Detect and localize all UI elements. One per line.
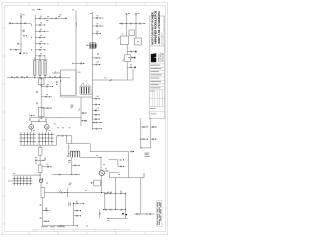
svg-text:ELECTRONIC: ELECTRONIC [160,51,162,62]
svg-text:REV 1.02 2008 KIT: REV 1.02 2008 KIT [161,32,163,44]
svg-text:PART 1 OF 2 SCHEMATIC: PART 1 OF 2 SCHEMATIC [157,11,161,44]
